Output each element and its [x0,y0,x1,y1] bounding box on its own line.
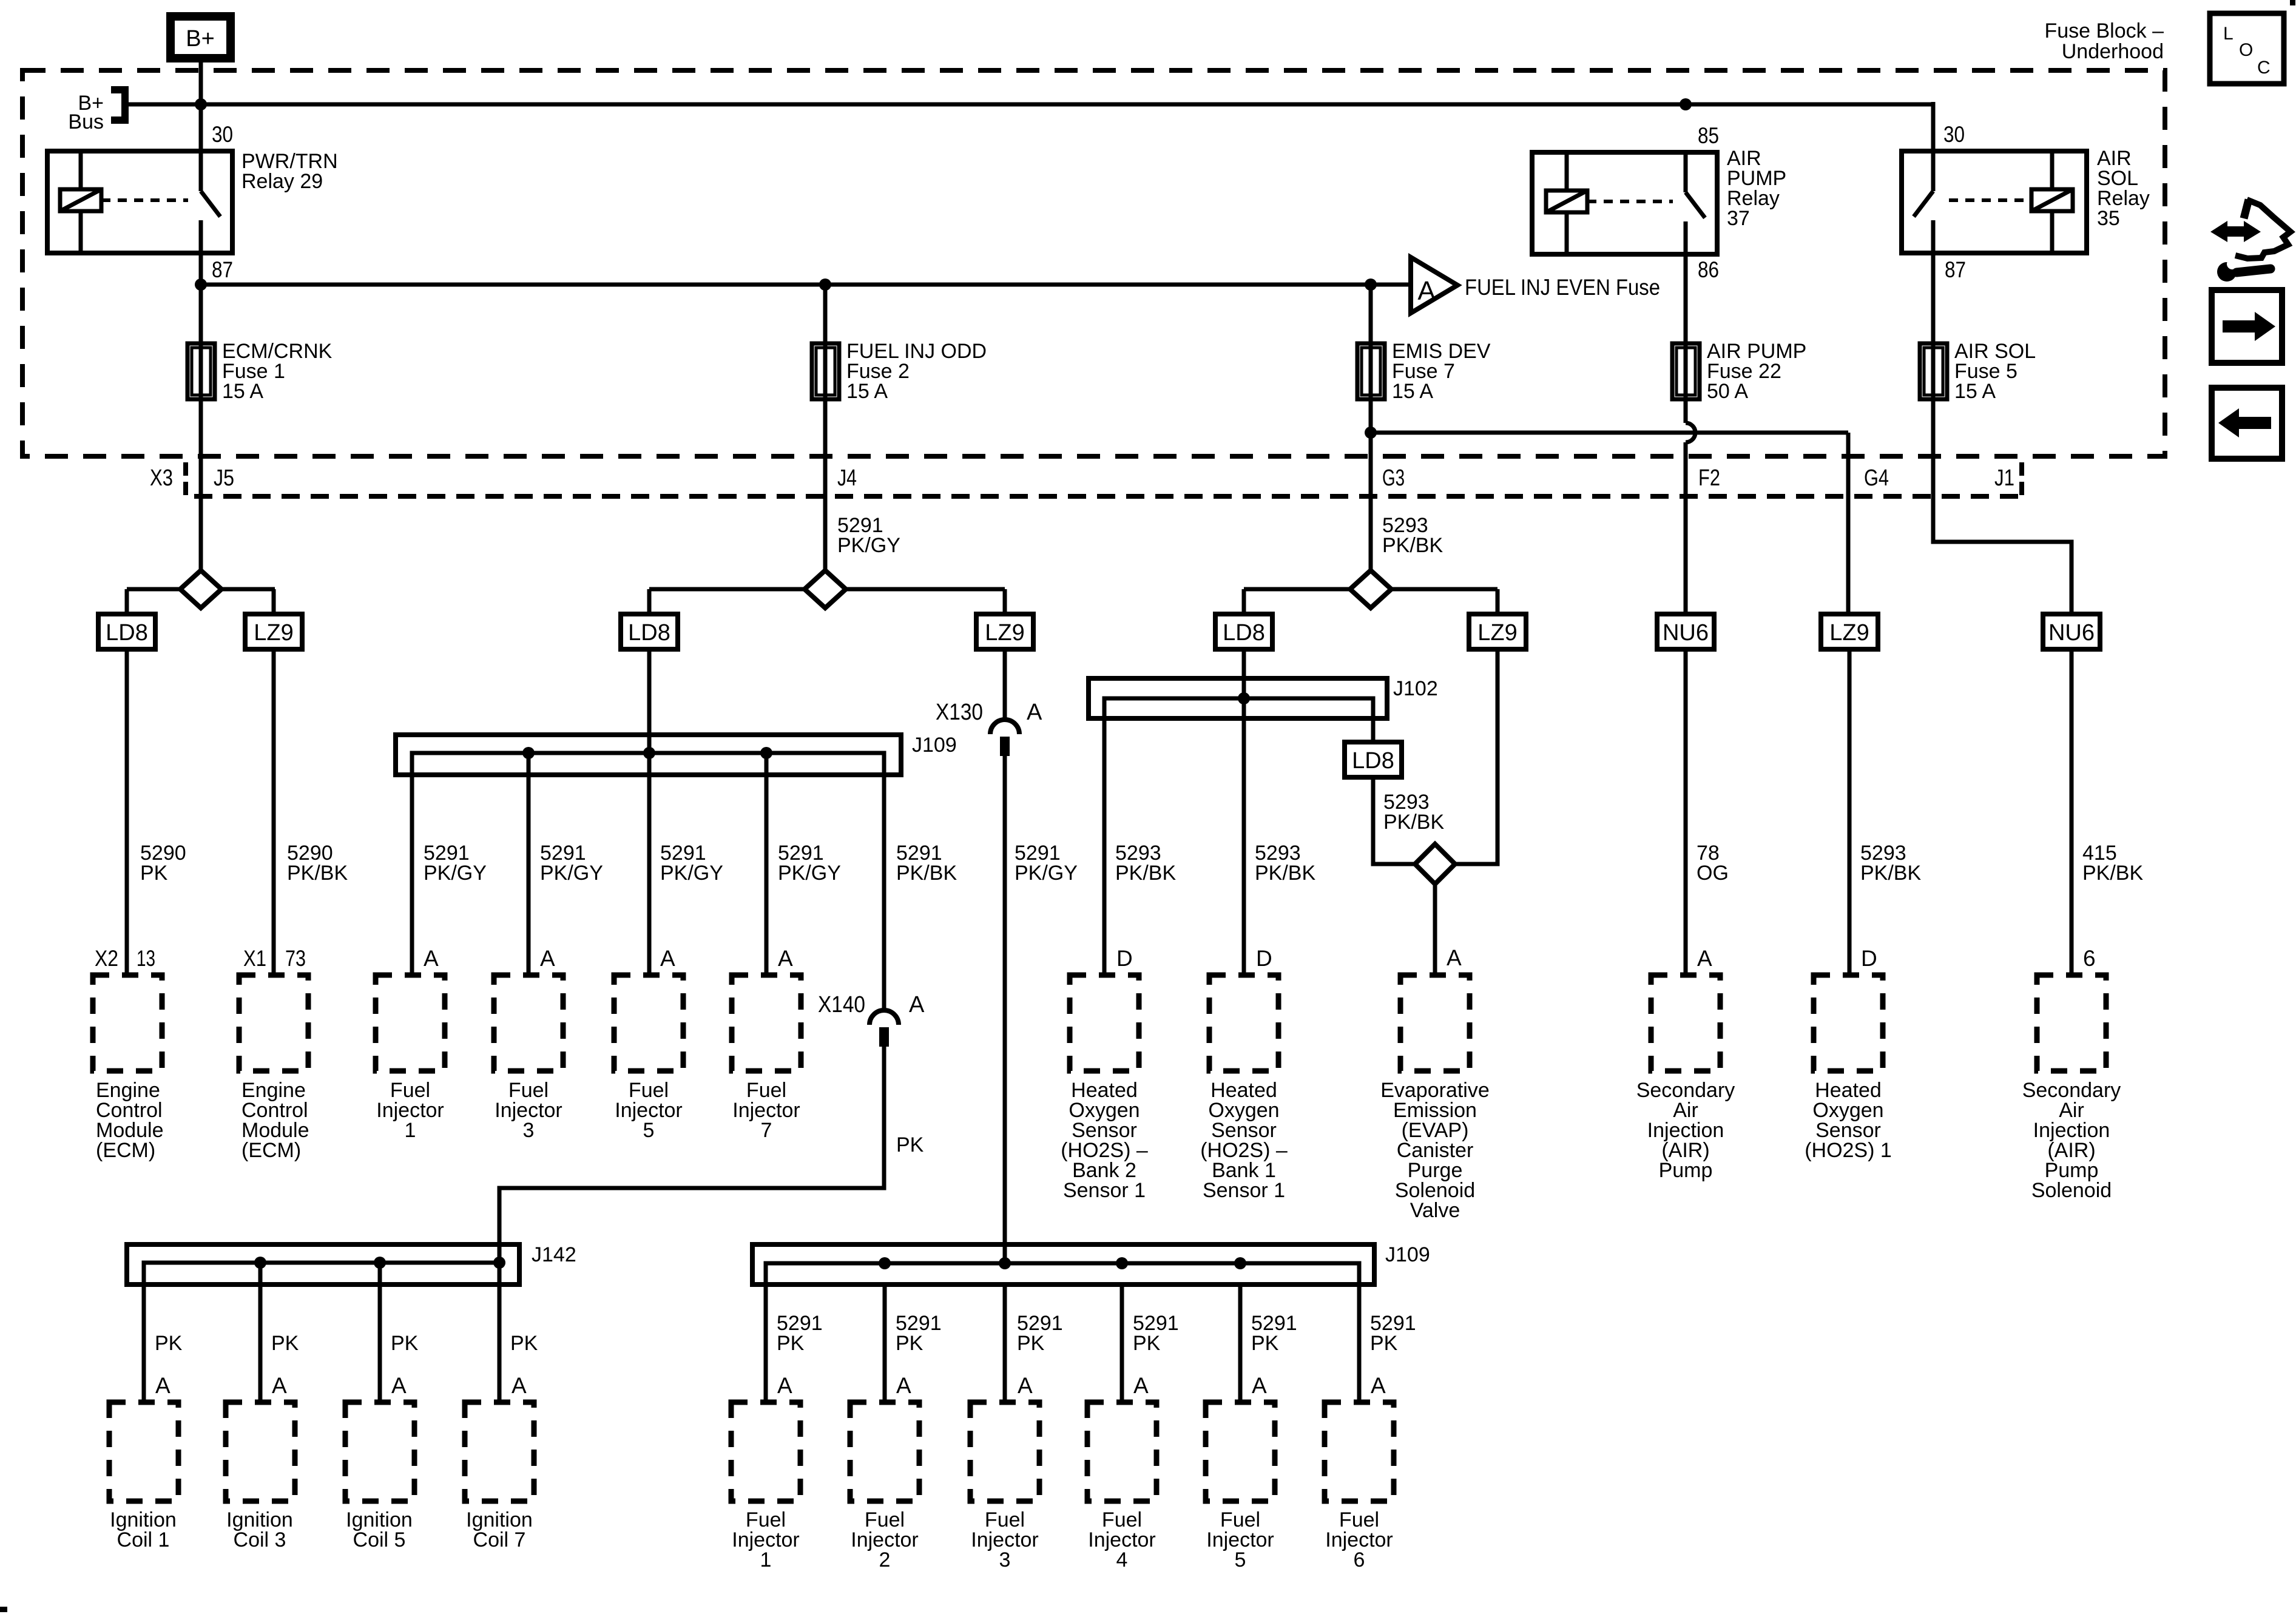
svg-text:13: 13 [137,946,155,971]
svg-text:NU6: NU6 [1663,620,1709,646]
svg-text:3: 3 [523,1119,535,1142]
svg-text:X2: X2 [95,946,118,971]
svg-text:Pump: Pump [1659,1159,1713,1182]
svg-text:X1: X1 [243,946,266,971]
svg-text:D: D [1861,946,1877,971]
svg-text:Underhood: Underhood [2062,40,2164,63]
svg-text:PK: PK [391,1332,419,1355]
svg-text:J5: J5 [214,465,234,491]
svg-text:(HO2S) 1: (HO2S) 1 [1805,1139,1892,1162]
svg-text:PK: PK [510,1332,538,1355]
svg-text:15 A: 15 A [1954,380,1996,403]
svg-text:LD8: LD8 [1352,748,1394,774]
svg-text:J109: J109 [912,734,957,757]
svg-text:73: 73 [285,946,306,971]
svg-text:PK/BK: PK/BK [1383,811,1444,834]
svg-text:35: 35 [2097,207,2120,230]
svg-text:PK/BK: PK/BK [896,862,957,885]
svg-text:G4: G4 [1864,465,1889,491]
svg-text:PK/BK: PK/BK [1382,534,1443,557]
svg-text:A: A [540,946,555,971]
svg-text:A: A [1697,946,1712,971]
svg-text:4: 4 [1116,1548,1128,1571]
svg-text:LZ9: LZ9 [1477,620,1517,646]
svg-text:A: A [896,1373,911,1398]
svg-text:PK/GY: PK/GY [778,862,841,885]
svg-text:PK/BK: PK/BK [1860,862,1921,885]
svg-text:A: A [909,992,925,1018]
svg-text:A: A [512,1373,527,1398]
svg-text:Coil 5: Coil 5 [353,1528,406,1551]
svg-text:LD8: LD8 [628,620,670,646]
svg-text:PK/BK: PK/BK [1115,862,1176,885]
svg-text:15 A: 15 A [222,380,263,403]
svg-text:A: A [155,1373,171,1398]
svg-text:J109: J109 [1385,1243,1430,1266]
svg-text:15 A: 15 A [846,380,888,403]
svg-text:87: 87 [1945,257,1966,282]
svg-text:NU6: NU6 [2048,620,2095,646]
svg-text:O: O [2239,40,2253,60]
svg-text:Coil 1: Coil 1 [117,1528,170,1551]
svg-text:LZ9: LZ9 [985,620,1024,646]
svg-text:5: 5 [1235,1548,1246,1571]
svg-text:PK: PK [140,862,168,885]
svg-text:Fuse Block –: Fuse Block – [2044,19,2164,42]
svg-text:A: A [778,946,793,971]
svg-text:Sensor 1: Sensor 1 [1203,1179,1285,1202]
svg-text:PK/GY: PK/GY [660,862,723,885]
svg-text:PK/GY: PK/GY [1015,862,1078,885]
svg-text:PK: PK [1017,1332,1045,1355]
svg-text:Bus: Bus [68,110,104,133]
svg-text:PK: PK [271,1332,299,1355]
svg-text:A: A [1417,276,1436,306]
svg-text:A: A [1371,1373,1386,1398]
svg-text:L: L [2223,24,2234,44]
svg-text:A: A [391,1373,407,1398]
svg-text:A: A [1018,1373,1033,1398]
svg-text:2: 2 [879,1548,891,1571]
svg-text:PK/GY: PK/GY [424,862,487,885]
svg-text:1: 1 [405,1119,416,1142]
svg-text:J4: J4 [837,465,857,491]
svg-text:B+: B+ [186,26,215,52]
svg-text:A: A [660,946,675,971]
svg-text:G3: G3 [1382,465,1405,491]
svg-text:(ECM): (ECM) [96,1139,155,1162]
svg-text:LZ9: LZ9 [254,620,293,646]
svg-text:PK/GY: PK/GY [837,534,900,557]
svg-text:J142: J142 [532,1243,576,1266]
svg-text:7: 7 [761,1119,772,1142]
svg-text:A: A [1133,1373,1149,1398]
svg-text:J1: J1 [1994,465,2014,491]
svg-text:1: 1 [760,1548,772,1571]
svg-text:PK: PK [1133,1332,1161,1355]
svg-text:3: 3 [999,1548,1011,1571]
svg-text:PK/GY: PK/GY [540,862,603,885]
svg-text:PK: PK [155,1332,183,1355]
svg-text:PK: PK [896,1133,924,1156]
svg-text:15 A: 15 A [1392,380,1433,403]
svg-text:D: D [1116,946,1133,971]
svg-text:6: 6 [2083,946,2096,971]
svg-text:Coil 7: Coil 7 [473,1528,526,1551]
svg-text:FUEL INJ EVEN Fuse: FUEL INJ EVEN Fuse [1465,275,1660,300]
svg-text:87: 87 [212,257,233,282]
svg-text:PK: PK [1251,1332,1279,1355]
svg-text:LD8: LD8 [106,620,148,646]
svg-text:J102: J102 [1393,677,1438,700]
svg-text:PK: PK [777,1332,805,1355]
svg-text:5: 5 [643,1119,655,1142]
svg-text:X3: X3 [150,465,173,491]
svg-text:X130: X130 [936,700,983,725]
svg-text:LZ9: LZ9 [1829,620,1869,646]
svg-text:6: 6 [1354,1548,1365,1571]
svg-text:Coil 3: Coil 3 [234,1528,286,1551]
svg-text:C: C [2257,58,2271,78]
svg-text:A: A [1447,945,1462,970]
svg-text:Sensor 1: Sensor 1 [1063,1179,1146,1202]
svg-text:86: 86 [1698,257,1719,282]
svg-text:(ECM): (ECM) [241,1139,301,1162]
svg-text:OG: OG [1697,862,1729,885]
svg-text:F2: F2 [1698,465,1720,491]
svg-text:Solenoid: Solenoid [2031,1179,2112,1202]
svg-text:PK/BK: PK/BK [287,862,348,885]
svg-text:50 A: 50 A [1707,380,1748,403]
svg-text:30: 30 [1943,122,1965,147]
svg-text:PK/BK: PK/BK [1255,862,1315,885]
svg-text:A: A [1027,700,1042,725]
svg-text:A: A [272,1373,287,1398]
svg-text:PK: PK [1370,1332,1398,1355]
svg-text:LD8: LD8 [1223,620,1265,646]
svg-text:37: 37 [1727,207,1750,230]
svg-text:PK: PK [896,1332,923,1355]
svg-text:Valve: Valve [1410,1199,1460,1222]
svg-text:X140: X140 [818,992,865,1018]
svg-text:D: D [1256,946,1272,971]
svg-text:A: A [424,946,439,971]
svg-text:A: A [1252,1373,1267,1398]
svg-text:Relay 29: Relay 29 [241,170,323,193]
svg-text:A: A [777,1373,792,1398]
svg-text:PK/BK: PK/BK [2082,862,2143,885]
svg-text:85: 85 [1698,123,1719,148]
svg-text:30: 30 [212,122,233,147]
